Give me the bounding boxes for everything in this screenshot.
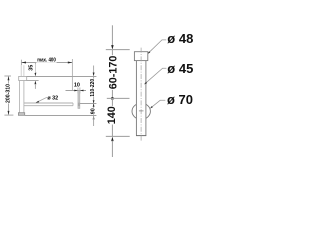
tick bottom: [106, 135, 130, 137]
dimension 10: [66, 90, 87, 92]
horizontal outlet pipe: [24, 102, 73, 104]
svg-text:ø 45: ø 45: [167, 61, 193, 76]
trap pipe body: [136, 61, 146, 136]
wall sleeve bar: [78, 91, 80, 109]
leader o45: [144, 68, 166, 84]
dimension 200-310: [4, 75, 11, 77]
reference line nut top: [27, 76, 97, 78]
svg-text:ø 48: ø 48: [167, 31, 193, 46]
baseline: [25, 115, 97, 117]
middle dot: [111, 97, 114, 100]
dimension 35: [34, 63, 36, 73]
bulb center cross: [139, 110, 144, 112]
svg-text:max. 400: max. 400: [37, 58, 56, 64]
extension line wall plane: [71, 59, 73, 91]
pipe bottom cap: [18, 113, 24, 116]
bulb cup: [132, 103, 150, 119]
dimension 60-170 top arrow: [111, 25, 113, 46]
reference line pipe top right: [80, 103, 96, 105]
svg-text:ø 32: ø 32: [47, 95, 58, 101]
inlet stub pipe: [20, 65, 22, 76]
svg-text:200-310: 200-310: [6, 84, 12, 103]
text max. 400: [36, 56, 56, 62]
vertical inlet pipe: [18, 81, 20, 113]
arrowheads max400: [21, 62, 26, 64]
svg-text:35: 35: [29, 65, 35, 71]
svg-text:60-170: 60-170: [108, 56, 120, 90]
centerline: [140, 48, 142, 141]
svg-text:90: 90: [90, 108, 96, 114]
reference line nut bottom: [27, 80, 39, 82]
svg-text:140: 140: [106, 106, 118, 124]
svg-text:10: 10: [74, 83, 80, 89]
dim line 60-170: [111, 50, 113, 99]
trap top nut: [134, 52, 147, 61]
leader o70: [150, 100, 165, 108]
dim line 140: [111, 98, 113, 136]
dimension max. 400 line: [21, 62, 72, 64]
leader o32: [36, 97, 47, 102]
svg-text:ø 70: ø 70: [167, 92, 193, 107]
compression nut: [19, 76, 27, 80]
tick top: [106, 49, 130, 51]
dimension 110-220 and 90: [93, 66, 95, 73]
svg-text:110-220: 110-220: [90, 79, 96, 97]
leader o48: [148, 40, 167, 54]
